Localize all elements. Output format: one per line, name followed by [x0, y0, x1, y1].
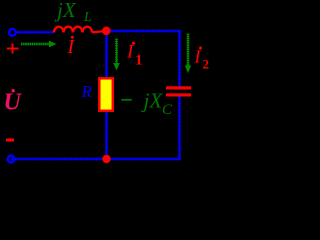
- svg-text:1: 1: [135, 53, 143, 69]
- plus sign: [7, 43, 19, 53]
- wire middle vertical upper: [106, 31, 108, 78]
- label I (dotted): [67, 36, 76, 58]
- current arrow I2: [185, 34, 191, 74]
- label I1 (dotted): [126, 42, 143, 69]
- label U (source voltage, dotted): [4, 89, 23, 116]
- node A (top junction dot): [102, 27, 111, 36]
- svg-text:I: I: [67, 36, 76, 58]
- current arrow I1: [113, 39, 119, 71]
- label I2 (dotted): [194, 47, 210, 72]
- capacitor C plate top: [166, 86, 191, 89]
- wire top-right (node A to corner): [106, 30, 181, 32]
- wire bottom rail: [11, 158, 181, 160]
- svg-text:C: C: [162, 102, 173, 118]
- wire right vertical upper: [179, 31, 181, 88]
- terminal bottom-left: [8, 156, 15, 163]
- svg-text:I: I: [194, 47, 202, 67]
- wire inductor to node A (red lead): [92, 31, 104, 32]
- inductor L (coil): [54, 27, 92, 33]
- current arrow I (source current): [21, 41, 57, 47]
- svg-text:U: U: [4, 90, 23, 116]
- wire top-left (terminal to inductor): [15, 31, 54, 33]
- resistor R (yellow body): [99, 78, 113, 111]
- svg-text:R: R: [81, 82, 93, 101]
- terminal top-left: [9, 29, 16, 36]
- svg-text:L: L: [83, 10, 92, 25]
- wire middle vertical lower: [106, 111, 108, 159]
- label -jX_C: [121, 89, 173, 119]
- capacitor C plate bottom: [166, 93, 191, 96]
- node B (bottom junction dot): [102, 155, 110, 163]
- minus sign: [6, 139, 14, 142]
- svg-text:2: 2: [203, 57, 210, 72]
- label jX_L: [54, 0, 92, 25]
- wire right vertical lower: [179, 96, 181, 160]
- svg-text:jX: jX: [141, 89, 164, 113]
- svg-text:jX: jX: [54, 0, 77, 22]
